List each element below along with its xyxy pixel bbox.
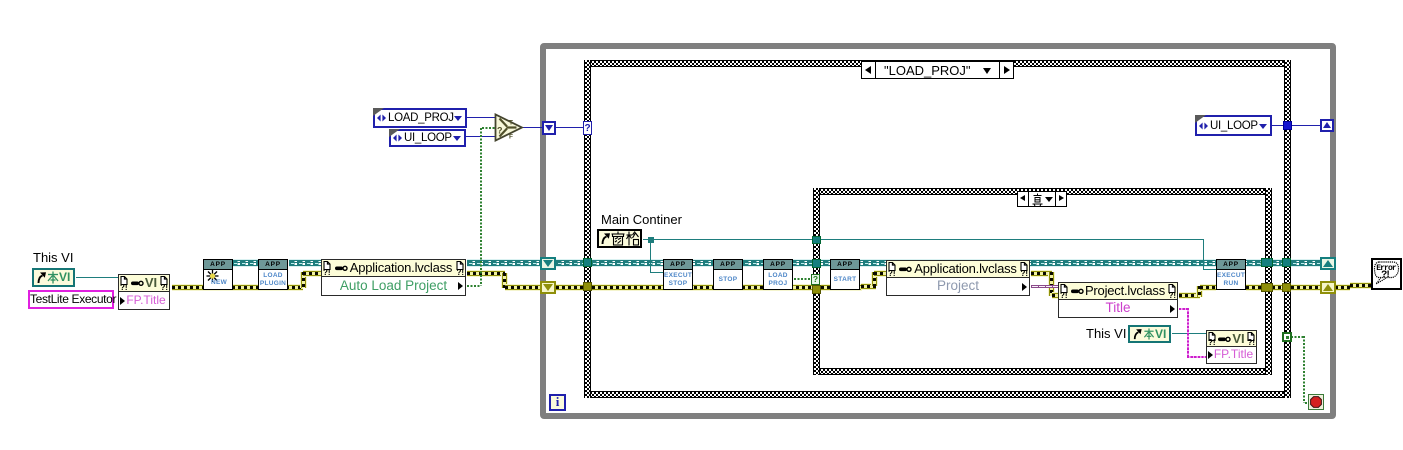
svg-text:T: T xyxy=(509,120,513,127)
svg-text:F: F xyxy=(509,134,513,141)
svg-text:?!: ?! xyxy=(1381,270,1391,281)
svg-text:?: ? xyxy=(497,126,503,136)
